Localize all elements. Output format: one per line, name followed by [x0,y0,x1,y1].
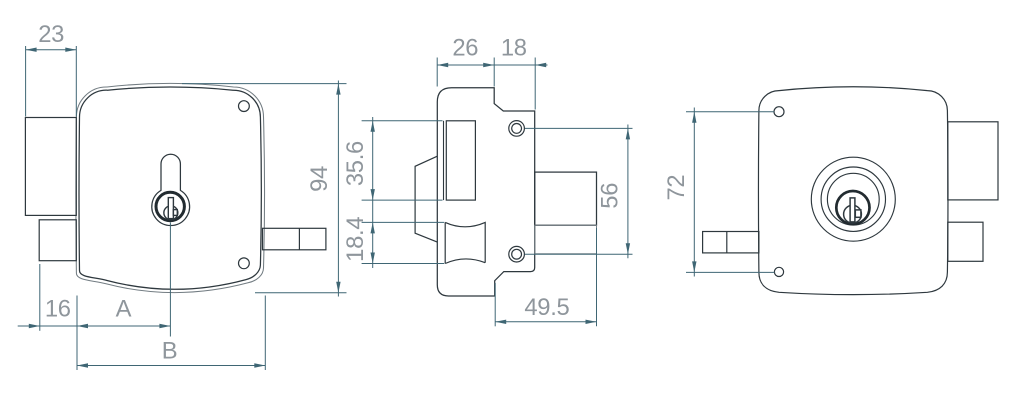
dimension 94 [182,83,347,85]
dimension 49.5 [494,283,496,326]
dimension 16 [39,264,41,331]
side view left wedge [415,156,437,242]
rear view cylinder outer circle [811,157,895,241]
rear view cylinder middle circle [821,167,885,231]
svg-text:B: B [162,337,178,364]
bolt front view divider [298,228,300,250]
dimension A [76,296,78,371]
cylinder ring front view [156,192,184,220]
rear view body [758,87,948,295]
rear view top-right protrusion [948,122,998,200]
bolt front view [263,228,326,250]
svg-text:56: 56 [597,183,624,209]
mounting tab lower-left [39,220,76,261]
rear view cylinder small circle [827,173,879,225]
rear view cylinder ring [836,191,869,224]
side view bolt [535,172,597,225]
rear view screw hole top [774,107,784,117]
svg-text:16: 16 [45,296,71,323]
dimension 26 [436,58,438,87]
lock body front view: outer contour [76,83,265,292]
side view bolt lower part [535,225,597,254]
dimension 23 [25,46,27,117]
screw hole top-right front view [239,101,250,112]
rear view key profile [844,205,862,223]
dimension 35.6 [362,120,443,122]
dimension 18 [534,58,536,110]
svg-text:23: 23 [38,21,64,48]
dimension 56 [525,127,633,129]
mounting tab upper-left [25,118,76,216]
dimension B [264,296,266,371]
dimension 18.4 [362,221,445,223]
key profile front view [164,206,178,220]
side view plate outline [437,88,534,296]
lock body front view: inner contour [79,87,261,289]
svg-text:26: 26 [452,34,478,61]
svg-text:18: 18 [501,34,527,61]
side view screw boss bottom [509,246,525,262]
svg-text:18.4: 18.4 [342,217,369,262]
rear view screw hole bottom [774,267,783,276]
side view spool (cylinder boss) [445,222,485,263]
svg-text:94: 94 [306,166,333,192]
dimension 72 [686,111,774,113]
svg-text:35.6: 35.6 [342,141,369,186]
side view keyhole slot depth rectangle [446,121,475,200]
svg-text:72: 72 [663,175,690,201]
svg-text:49.5: 49.5 [524,294,569,321]
keyhole slot + cylinder outline front view [152,154,190,225]
rear view left tab [703,232,759,253]
side view screw boss top [509,121,525,137]
rear view bolt [948,222,983,261]
svg-text:A: A [116,296,132,323]
screw hole bottom-right front view [239,258,250,269]
